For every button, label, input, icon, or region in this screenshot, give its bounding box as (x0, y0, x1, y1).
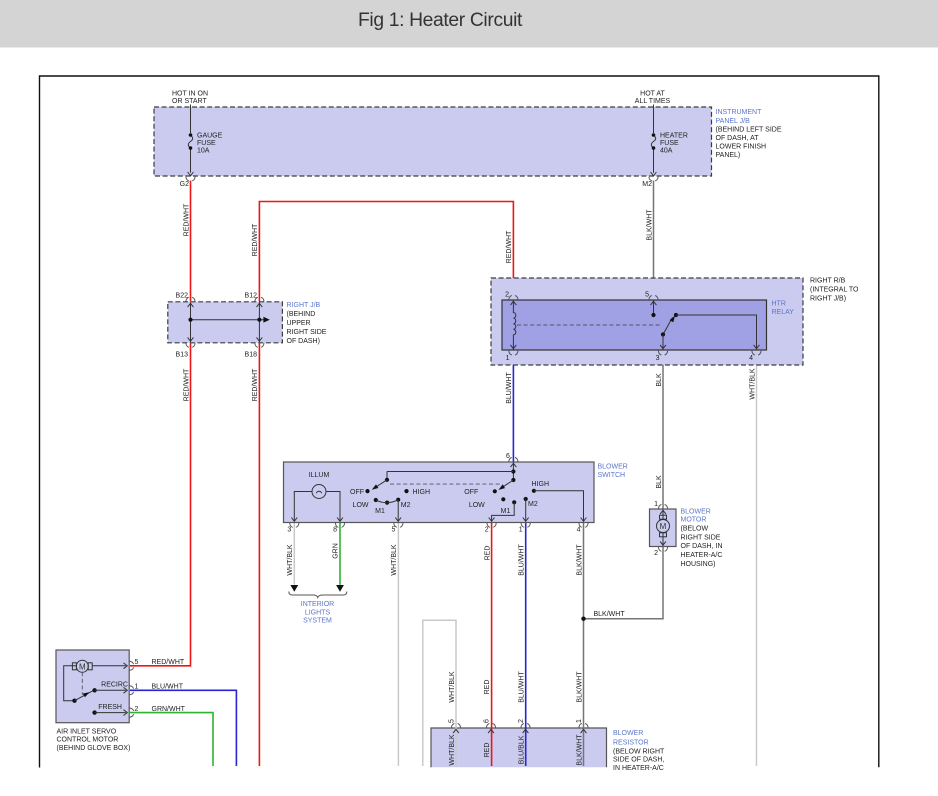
svg-text:GAUGE: GAUGE (197, 133, 223, 140)
svg-text:4: 4 (577, 527, 581, 534)
svg-text:BLK/WHT: BLK/WHT (576, 734, 583, 766)
svg-text:2: 2 (654, 550, 658, 557)
svg-text:BLU/WHT: BLU/WHT (152, 684, 184, 691)
svg-text:BLOWER: BLOWER (681, 508, 711, 515)
svg-text:RIGHT J/B: RIGHT J/B (287, 302, 321, 309)
svg-text:BLK/WHT: BLK/WHT (594, 611, 626, 618)
svg-text:WHT/BLK: WHT/BLK (287, 544, 294, 575)
svg-text:M: M (660, 522, 667, 531)
svg-text:8: 8 (333, 527, 337, 534)
svg-text:(INTEGRAL TO: (INTEGRAL TO (810, 287, 859, 294)
svg-text:LOW: LOW (469, 502, 485, 509)
svg-text:1: 1 (506, 355, 510, 362)
svg-text:SIDE OF DASH,: SIDE OF DASH, (613, 757, 664, 764)
svg-text:RESISTOR: RESISTOR (613, 740, 649, 747)
svg-text:OR START: OR START (172, 98, 207, 105)
svg-text:OFF: OFF (464, 489, 478, 496)
svg-text:2: 2 (485, 527, 489, 534)
svg-text:BLK: BLK (656, 373, 663, 387)
svg-text:HIGH: HIGH (532, 481, 550, 488)
svg-text:3: 3 (656, 355, 660, 362)
svg-text:FUSE: FUSE (660, 140, 679, 147)
svg-text:2: 2 (518, 719, 525, 723)
svg-text:WHT/BLK: WHT/BLK (749, 368, 756, 399)
svg-text:M1: M1 (375, 508, 385, 515)
svg-text:2: 2 (135, 706, 139, 713)
svg-text:RED/WHT: RED/WHT (252, 223, 259, 256)
svg-text:BLK/WHT: BLK/WHT (576, 544, 583, 576)
svg-text:(BEHIND: (BEHIND (287, 311, 316, 318)
svg-text:MOTOR: MOTOR (681, 516, 707, 523)
svg-text:Fig 1: Heater Circuit: Fig 1: Heater Circuit (358, 10, 523, 31)
svg-text:LOW: LOW (353, 502, 369, 509)
svg-text:1: 1 (576, 719, 583, 723)
svg-text:IN HEATER-A/C: IN HEATER-A/C (613, 765, 664, 772)
svg-text:LIGHTS: LIGHTS (305, 609, 331, 616)
svg-text:OFF: OFF (350, 489, 364, 496)
svg-text:RED/WHT: RED/WHT (152, 659, 185, 666)
svg-text:AIR INLET SERVO: AIR INLET SERVO (57, 728, 117, 735)
svg-text:RED/WHT: RED/WHT (183, 368, 190, 401)
svg-text:BLU/WHT: BLU/WHT (519, 544, 526, 576)
svg-text:RIGHT J/B): RIGHT J/B) (810, 296, 846, 303)
svg-text:RED/WHT: RED/WHT (506, 230, 513, 263)
svg-text:BLOWER: BLOWER (598, 464, 628, 471)
svg-text:40A: 40A (660, 148, 673, 155)
svg-text:INSTRUMENT: INSTRUMENT (716, 109, 763, 116)
svg-text:RECIRC: RECIRC (101, 682, 128, 689)
svg-text:BLU/BLK: BLU/BLK (518, 735, 525, 764)
svg-text:WHT/BLK: WHT/BLK (391, 544, 398, 575)
svg-text:OF DASH): OF DASH) (287, 338, 320, 345)
svg-text:WHT/BLK: WHT/BLK (449, 671, 456, 702)
svg-text:M: M (79, 662, 86, 671)
svg-text:M2: M2 (401, 502, 411, 509)
svg-text:1: 1 (135, 684, 139, 691)
svg-text:(BEHIND GLOVE BOX): (BEHIND GLOVE BOX) (57, 745, 131, 752)
svg-text:1: 1 (519, 527, 523, 534)
svg-text:HOT IN ON: HOT IN ON (172, 91, 208, 98)
svg-text:FUSE: FUSE (197, 140, 216, 147)
svg-text:ALL TIMES: ALL TIMES (635, 98, 671, 105)
svg-text:RED: RED (484, 743, 491, 758)
svg-text:PANEL J/B: PANEL J/B (716, 118, 751, 125)
svg-text:5: 5 (135, 659, 139, 666)
svg-text:HEATER: HEATER (660, 133, 688, 140)
svg-text:M1: M1 (501, 508, 511, 515)
svg-text:RED/WHT: RED/WHT (183, 203, 190, 236)
svg-text:OF DASH, IN: OF DASH, IN (681, 543, 723, 550)
svg-text:5: 5 (449, 719, 456, 723)
svg-text:RELAY: RELAY (772, 309, 795, 316)
svg-text:ILLUM: ILLUM (309, 472, 330, 479)
svg-text:5: 5 (391, 527, 395, 534)
svg-text:HIGH: HIGH (413, 489, 431, 496)
svg-text:BLU/WHT: BLU/WHT (506, 372, 513, 404)
svg-text:B12: B12 (245, 293, 258, 300)
svg-text:B18: B18 (245, 352, 258, 359)
svg-text:FRESH: FRESH (98, 704, 122, 711)
svg-text:10A: 10A (197, 148, 210, 155)
svg-text:2: 2 (505, 292, 509, 299)
svg-text:(BELOW: (BELOW (681, 525, 709, 532)
svg-text:GRN: GRN (333, 543, 340, 559)
svg-text:RIGHT SIDE: RIGHT SIDE (681, 534, 721, 541)
svg-text:CONTROL MOTOR: CONTROL MOTOR (57, 736, 119, 743)
svg-text:M2: M2 (528, 501, 538, 508)
svg-text:5: 5 (645, 292, 649, 299)
svg-text:(BEHIND LEFT SIDE: (BEHIND LEFT SIDE (716, 127, 782, 134)
svg-text:1: 1 (654, 501, 658, 508)
svg-text:RED/WHT: RED/WHT (252, 368, 259, 401)
svg-text:WHT/BLK: WHT/BLK (449, 734, 456, 765)
svg-text:3: 3 (287, 527, 291, 534)
svg-text:RIGHT SIDE: RIGHT SIDE (287, 329, 327, 336)
svg-text:BLK: BLK (656, 475, 663, 489)
svg-text:HTR: HTR (772, 301, 786, 308)
svg-text:B22: B22 (176, 293, 189, 300)
svg-text:PANEL): PANEL) (716, 152, 741, 159)
svg-text:4: 4 (749, 355, 753, 362)
svg-text:HOUSING): HOUSING) (681, 561, 716, 568)
svg-text:GRN/WHT: GRN/WHT (152, 706, 186, 713)
svg-text:B13: B13 (176, 352, 189, 359)
svg-text:BLU/WHT: BLU/WHT (518, 671, 525, 703)
svg-text:G2: G2 (180, 181, 189, 188)
svg-text:LOWER FINISH: LOWER FINISH (716, 144, 767, 151)
svg-text:RED: RED (484, 546, 491, 561)
svg-text:BLOWER: BLOWER (613, 730, 643, 737)
svg-text:BLK/WHT: BLK/WHT (576, 671, 583, 703)
svg-text:M2: M2 (642, 181, 652, 188)
svg-text:HOT AT: HOT AT (640, 91, 665, 98)
svg-text:6: 6 (506, 453, 510, 460)
svg-text:(BELOW RIGHT: (BELOW RIGHT (613, 749, 665, 756)
svg-text:OF DASH, AT: OF DASH, AT (716, 135, 760, 142)
svg-text:SYSTEM: SYSTEM (303, 618, 332, 625)
svg-text:6: 6 (484, 719, 491, 723)
svg-text:INTERIOR: INTERIOR (301, 601, 334, 608)
svg-text:HEATER-A/C: HEATER-A/C (681, 552, 723, 559)
svg-text:BLK/WHT: BLK/WHT (646, 209, 653, 241)
svg-text:SWITCH: SWITCH (598, 472, 626, 479)
svg-text:RED: RED (484, 680, 491, 695)
svg-text:RIGHT R/B: RIGHT R/B (810, 278, 846, 285)
svg-text:UPPER: UPPER (287, 320, 311, 327)
